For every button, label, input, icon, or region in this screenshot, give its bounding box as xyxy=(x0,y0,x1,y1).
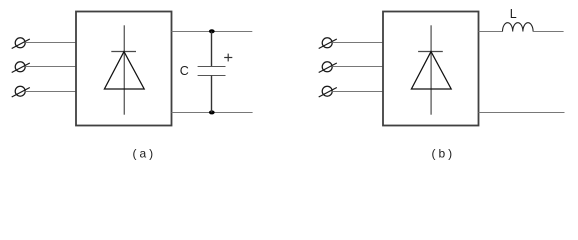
phase input terminal 3 of rectifier (a) xyxy=(12,86,30,97)
junction dot at bottom of capacitor C xyxy=(209,110,215,114)
diode triangle (b) xyxy=(411,52,451,89)
svg-text:(b): (b) xyxy=(431,146,455,160)
svg-text:(a): (a) xyxy=(132,146,156,160)
rectifier block outline (a) xyxy=(76,12,172,126)
wire DC positive rail after inductor (b) xyxy=(533,31,564,33)
inductor L coil xyxy=(503,23,534,32)
phase input terminal 3 of rectifier (b) xyxy=(319,86,337,97)
capacitor C bottom lead xyxy=(211,76,213,113)
capacitor C top lead xyxy=(211,31,213,66)
diode vertical lead (a) xyxy=(123,25,125,114)
junction dot at top of capacitor C xyxy=(209,29,215,33)
wire DC negative rail (a) xyxy=(172,112,253,114)
phase input terminal 2 of rectifier (a) xyxy=(12,62,30,73)
diode vertical lead (b) xyxy=(430,25,432,114)
wire phase 3 to rectifier block (b) xyxy=(332,91,383,93)
capacitor C plates xyxy=(198,67,226,76)
phase input terminal 1 of rectifier (b) xyxy=(319,38,337,49)
phase input terminal 2 of rectifier (b) xyxy=(319,62,337,73)
wire phase 1 to rectifier block (a) xyxy=(25,42,76,44)
rectifier block outline (b) xyxy=(383,12,479,126)
wire phase 3 to rectifier block (a) xyxy=(25,91,76,93)
wire DC positive rail from rectifier to inductor (b) xyxy=(479,31,503,33)
diode cathode bar (a) xyxy=(111,51,136,53)
diode cathode bar (b) xyxy=(418,51,443,53)
wire DC negative rail (b) xyxy=(479,112,565,114)
svg-text:C: C xyxy=(180,64,189,78)
wire DC positive rail (a) xyxy=(172,31,253,33)
wire phase 1 to rectifier block (b) xyxy=(332,42,383,44)
polarity plus sign for capacitor C xyxy=(224,54,232,62)
wire phase 2 to rectifier block (a) xyxy=(25,66,76,68)
phase input terminal 1 of rectifier (a) xyxy=(12,38,30,49)
svg-text:L: L xyxy=(510,7,517,21)
diode triangle (a) xyxy=(104,52,144,89)
wire phase 2 to rectifier block (b) xyxy=(332,66,383,68)
